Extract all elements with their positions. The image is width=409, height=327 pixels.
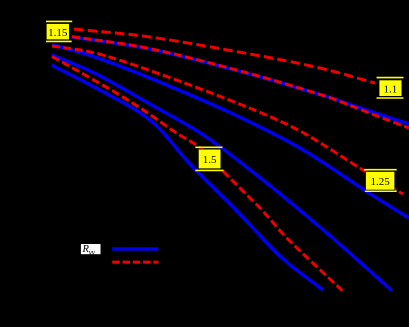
label 1.1 box (379, 80, 402, 97)
label 1.15 overline (46, 20, 72, 22)
label 1.25 underline (365, 190, 397, 192)
label 1.25 box (366, 171, 395, 190)
label 1.1 underline (377, 97, 404, 99)
legend red dashed line (112, 261, 158, 264)
label 1.25 overline (364, 169, 397, 171)
curve R3 (red dashed, behind 1.25 label) (52, 46, 403, 194)
legend blue line (112, 247, 158, 250)
label 1.5 underline (195, 169, 223, 171)
legend key box R_gammagamma (81, 244, 101, 254)
svg-text:1.1: 1.1 (384, 83, 398, 95)
curve B1 (blue solid, pair with R2, label 1.1) (72, 37, 409, 124)
svg-text:1.15: 1.15 (48, 27, 68, 39)
label 1.1 overline (377, 77, 404, 79)
curve B3 (blue solid) (52, 55, 392, 291)
curve B2 (blue solid, label 1.25) (52, 45, 409, 219)
curve R1 (red dashed, ends at 1.1 label) (74, 29, 375, 83)
svg-text:1.25: 1.25 (370, 176, 390, 188)
label 1.15 underline (46, 40, 72, 42)
curve R4 (red dashed, behind 1.5 label) (52, 57, 345, 294)
svg-text:1.5: 1.5 (203, 154, 217, 166)
curve B4 (blue solid) (52, 65, 323, 290)
label 1.5 overline (195, 146, 222, 148)
label 1.15 box (46, 24, 69, 40)
curve R2 (red dashed, twisted with B1) (72, 37, 409, 128)
label 1.5 box (198, 149, 221, 169)
